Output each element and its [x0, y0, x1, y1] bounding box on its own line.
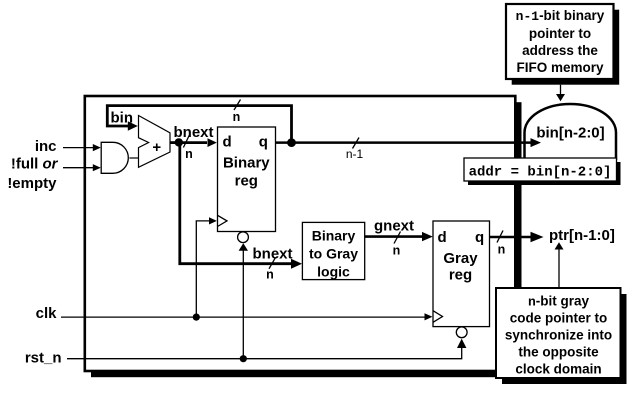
n-1 tick slash — [353, 138, 360, 149]
rst junction dot — [240, 355, 247, 362]
bnext-to-d wire — [180, 141, 207, 144]
bnext junction dot — [175, 138, 183, 146]
svg-text:Binary: Binary — [312, 227, 356, 243]
svg-text:bin[n-2:0]: bin[n-2:0] — [536, 124, 604, 141]
clk wire — [61, 316, 425, 318]
svg-text:n-1: n-1 — [346, 147, 364, 161]
svg-text:n: n — [233, 110, 241, 124]
binary to gray logic box — [302, 222, 364, 279]
top callout shadow — [512, 10, 620, 85]
arrow callout to dome — [560, 85, 562, 95]
svg-text:addr = bin[n-2:0]: addr = bin[n-2:0] — [469, 164, 612, 180]
svg-text:n: n — [393, 244, 401, 258]
top callout box — [506, 4, 614, 79]
svg-text:code pointer to: code pointer to — [510, 310, 608, 325]
rst arrow to binary bubble — [242, 250, 244, 359]
svg-text:bin: bin — [111, 109, 134, 126]
svg-text:synchronize into: synchronize into — [505, 327, 612, 342]
svg-text:q: q — [259, 134, 268, 151]
svg-text:q: q — [475, 229, 484, 246]
gray reset bubble — [456, 327, 467, 338]
gray clk wedge — [433, 311, 443, 323]
binary reset bubble — [238, 232, 249, 243]
addr box shadow — [468, 162, 621, 185]
svg-text:gnext: gnext — [374, 218, 414, 235]
n tick gnext slash — [394, 232, 401, 244]
adder — [139, 116, 171, 168]
rst_n wire — [67, 348, 462, 359]
empty wire — [63, 167, 94, 169]
and gate U1 — [101, 142, 128, 173]
gnext wire — [365, 235, 424, 238]
adder output wire — [170, 141, 180, 144]
bottom callout box — [496, 288, 621, 378]
svg-text:n: n — [266, 268, 274, 282]
bin feedback wire — [107, 106, 291, 143]
binary reg — [218, 127, 276, 232]
svg-text:+: + — [152, 139, 161, 156]
svg-text:to Gray: to Gray — [309, 245, 358, 261]
svg-text:d: d — [223, 134, 232, 151]
svg-text:ptr[n-1:0]: ptr[n-1:0] — [549, 227, 615, 244]
addr box — [464, 158, 617, 181]
svg-text:logic: logic — [317, 263, 350, 279]
svg-text:Binary: Binary — [223, 155, 270, 172]
svg-text:the opposite: the opposite — [518, 344, 599, 359]
svg-text:!empty: !empty — [7, 175, 57, 192]
bnext feed wire — [180, 143, 293, 264]
svg-text:clock domain: clock domain — [515, 361, 601, 376]
n tick ptr slash — [497, 231, 503, 243]
svg-text:address the: address the — [522, 43, 598, 58]
bin feedback arrowhead — [128, 121, 138, 130]
arrow callout to ptr wire — [558, 248, 560, 288]
svg-text:FIFO memory: FIFO memory — [516, 60, 604, 75]
q junction dot — [287, 138, 296, 147]
top n tick slash — [234, 100, 241, 111]
svg-text:n: n — [498, 243, 506, 257]
svg-text:!full or: !full or — [11, 156, 59, 173]
bottom callout shadow — [502, 294, 627, 384]
binary reg q wire — [276, 141, 532, 144]
n tick bnext slash — [183, 135, 189, 148]
svg-text:n: n — [185, 147, 193, 161]
svg-text:rst_n: rst_n — [25, 350, 62, 367]
outer block — [85, 96, 516, 371]
svg-text:Gray: Gray — [443, 250, 478, 267]
outer block shadow — [91, 102, 522, 377]
gray reg — [433, 221, 490, 327]
svg-text:reg: reg — [235, 172, 258, 189]
svg-text:bnext: bnext — [174, 124, 214, 141]
svg-text:n-bit gray: n-bit gray — [528, 293, 590, 309]
svg-text:inc: inc — [35, 138, 57, 155]
inc wire — [63, 147, 94, 149]
ptr wire — [490, 236, 532, 239]
svg-text:bnext: bnext — [253, 246, 293, 263]
svg-text:pointer to: pointer to — [529, 26, 591, 41]
and-to-adder wire — [129, 157, 139, 159]
clk wedge arrow (binary) — [196, 221, 209, 317]
q-to-bin arrowhead — [531, 138, 542, 147]
svg-text:n-1-bit binary: n-1-bit binary — [516, 8, 605, 24]
n tick bnext2 slash — [269, 258, 275, 269]
binary clk wedge — [218, 215, 228, 226]
svg-text:d: d — [438, 229, 447, 246]
svg-text:reg: reg — [449, 266, 472, 283]
clk junction dot — [193, 314, 200, 321]
svg-text:clk: clk — [36, 305, 58, 322]
bin[n-2:0] bubble dome — [525, 104, 617, 160]
